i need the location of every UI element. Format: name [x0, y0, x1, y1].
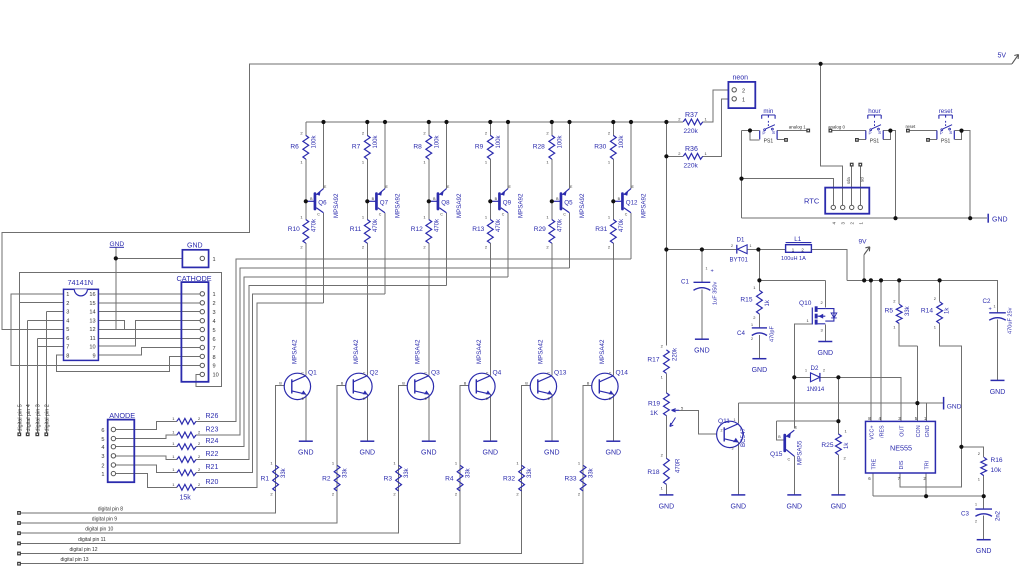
symbol detail [815, 306, 818, 324]
symbol detail [111, 445, 115, 449]
junction [629, 120, 633, 124]
svg-text:R17: R17 [647, 357, 659, 364]
wire to lower transistor collector [551, 243, 553, 376]
wire HV vertical [665, 122, 667, 346]
wire min S to analog 1 [777, 130, 807, 132]
symbol detail [415, 376, 429, 382]
svg-text:470pF: 470pF [770, 326, 776, 342]
junction [550, 120, 554, 124]
svg-text:470uF 25v: 470uF 25v [1008, 307, 1014, 334]
resistor R28 100k [549, 135, 555, 159]
terminal pin square [806, 129, 810, 133]
wire TRE/TRI junction row [873, 495, 984, 497]
symbol detail [200, 310, 204, 314]
svg-text:BC547: BC547 [740, 428, 747, 447]
svg-text:R20: R20 [206, 479, 219, 486]
resistor R23 15k [177, 432, 196, 438]
svg-text:Q8: Q8 [441, 200, 450, 207]
svg-text:GND: GND [831, 503, 847, 510]
wire to lower transistor collector [428, 243, 430, 376]
resistor R15 1k [757, 290, 763, 314]
svg-text:P: P [940, 130, 943, 135]
svg-text:1N914: 1N914 [807, 387, 825, 393]
wire [997, 320, 999, 381]
ground under Q2 [360, 440, 374, 442]
wire hour S down to gnd rail [883, 131, 895, 219]
svg-text:GND: GND [992, 217, 1008, 224]
wire base [583, 386, 592, 466]
junction [383, 120, 387, 124]
wire Q15 base row [777, 420, 839, 422]
svg-text:C: C [379, 213, 382, 217]
junction [700, 247, 704, 251]
ground under C4 [752, 358, 766, 360]
wire 74141 pin13 jog [98, 320, 124, 329]
svg-text:/RES: /RES [880, 425, 886, 438]
wire digital pin 11 [19, 491, 460, 543]
wire emitter to bus [384, 122, 386, 189]
svg-text:C: C [563, 213, 566, 217]
junction [879, 278, 883, 282]
svg-text:R9: R9 [475, 144, 484, 151]
junction [792, 375, 796, 379]
wire TRE [872, 473, 874, 496]
junction [862, 278, 866, 282]
wire base [276, 386, 285, 466]
svg-text:R30: R30 [594, 144, 606, 151]
symbol detail [498, 192, 501, 210]
symbol detail [562, 208, 569, 213]
svg-text:GND: GND [731, 503, 747, 510]
ground under C2 [991, 379, 1005, 381]
symbol detail [414, 379, 416, 393]
junction [321, 120, 325, 124]
svg-text:R24: R24 [206, 438, 219, 445]
resistor R36 220k [683, 153, 703, 159]
svg-text:OUT: OUT [899, 425, 905, 437]
svg-text:Q4: Q4 [493, 370, 502, 377]
svg-text:GND: GND [110, 241, 125, 248]
wire [665, 373, 667, 393]
transistor Q4 MPSA42 [469, 373, 495, 399]
supply 5V arrow [1012, 55, 1019, 64]
svg-text:P: P [869, 130, 872, 135]
resistor R11 470k [364, 220, 370, 244]
junction [365, 199, 369, 203]
wire emitter [612, 394, 614, 441]
svg-text:100k: 100k [619, 134, 625, 148]
symbol detail [475, 379, 477, 393]
svg-text:1: 1 [706, 267, 708, 271]
junction [924, 494, 928, 498]
symbol detail [353, 391, 367, 394]
symbol detail [437, 192, 440, 210]
wire reset S1 tie [954, 131, 961, 140]
svg-text:Q14: Q14 [616, 370, 629, 377]
svg-text:Q13: Q13 [554, 370, 567, 377]
wire D2 row [794, 376, 838, 378]
svg-text:Q12: Q12 [626, 200, 638, 207]
junction [968, 216, 972, 220]
svg-text:5: 5 [213, 328, 216, 334]
svg-text:R6: R6 [290, 144, 299, 151]
terminal pin square [858, 163, 862, 167]
transistor Q7 MPSA92 [367, 200, 375, 202]
resistor R31 470k [610, 220, 616, 244]
svg-text:digital pin 4: digital pin 4 [26, 404, 32, 431]
wire base [337, 386, 346, 466]
resistor R18 470R [664, 458, 670, 484]
wire [366, 159, 368, 219]
wire col6 [612, 122, 614, 135]
wire [305, 159, 307, 219]
svg-text:reset: reset [939, 108, 953, 115]
transistor Q14 MPSA42 [592, 373, 618, 399]
junction [959, 445, 963, 449]
symbol detail [111, 463, 115, 467]
svg-text:1k: 1k [765, 299, 771, 306]
svg-text:BYT01: BYT01 [730, 258, 749, 264]
wire Q15 collector [793, 456, 795, 495]
svg-text:C2: C2 [983, 298, 991, 305]
wire 74141 pin1 to CATHODE pin9 [11, 294, 201, 366]
svg-text:2: 2 [823, 369, 825, 373]
wire collector output [507, 213, 509, 277]
svg-text:MPSA92: MPSA92 [394, 193, 401, 218]
symbol detail [363, 390, 368, 394]
symbol detail [732, 97, 736, 101]
wire collector output [384, 213, 386, 294]
terminal pin square [17, 521, 21, 525]
symbol detail [476, 391, 490, 394]
diode D1 BYT01 [736, 245, 738, 254]
svg-text:C: C [502, 213, 505, 217]
terminal pin square [17, 562, 21, 566]
wire emitter [489, 394, 491, 441]
svg-text:1uF 350v: 1uF 350v [713, 281, 719, 305]
svg-text:D2: D2 [811, 365, 819, 372]
svg-text:220k: 220k [684, 128, 699, 135]
svg-text:C: C [363, 372, 366, 376]
svg-text:R32: R32 [503, 476, 515, 483]
svg-text:R12: R12 [411, 226, 423, 233]
wire D2 to 555 OUT [838, 377, 900, 421]
svg-text:2: 2 [66, 301, 69, 307]
symbol detail [200, 327, 204, 331]
svg-text:R10: R10 [288, 226, 300, 233]
svg-text:S: S [878, 130, 881, 135]
junction [959, 129, 963, 133]
svg-text:C1: C1 [681, 279, 689, 286]
wire [898, 280, 900, 304]
wire col5 [551, 122, 553, 135]
wire HV top bus [306, 121, 667, 123]
svg-text:3: 3 [66, 310, 69, 316]
wire emitter to bus [446, 122, 448, 189]
symbol detail [819, 373, 821, 382]
symbol detail [723, 427, 725, 441]
svg-text:33k: 33k [466, 467, 472, 478]
wire R14 to DIS [900, 324, 961, 487]
svg-text:GND: GND [976, 548, 992, 555]
svg-text:15k: 15k [180, 495, 192, 502]
symbol detail [762, 115, 775, 119]
svg-text:NE555: NE555 [890, 444, 912, 453]
wire base [399, 386, 408, 466]
resistor R9 100k [487, 135, 493, 159]
wire digital pin 13 [19, 491, 583, 564]
svg-text:R16: R16 [991, 457, 1003, 464]
svg-text:GND: GND [990, 389, 1006, 396]
svg-text:2: 2 [721, 429, 723, 433]
resistor R13 470k [487, 220, 493, 244]
wire 74141 pin2 to CATHODE pin10 [19, 272, 221, 386]
symbol detail [375, 192, 378, 210]
switch S1 min PS1 [760, 131, 777, 140]
svg-text:digital pin 13: digital pin 13 [61, 557, 89, 563]
wire 74141 pin15 to CATHODE 2 [98, 302, 200, 304]
symbol detail [766, 125, 775, 129]
svg-text:2: 2 [742, 88, 745, 94]
wire [666, 121, 683, 123]
ground under Q10 [818, 341, 832, 343]
ground rail symbol [987, 214, 989, 223]
svg-text:Q3: Q3 [431, 370, 440, 377]
svg-text:digital pin 2: digital pin 2 [45, 404, 51, 431]
symbol detail [989, 318, 1006, 321]
wire to lower transistor collector [489, 243, 491, 376]
wire ANODE 6 to R26 [113, 421, 176, 429]
svg-text:R14: R14 [921, 308, 933, 315]
symbol detail [624, 189, 631, 195]
terminal pin square [784, 138, 788, 142]
wire to R16 [961, 447, 983, 457]
wire R19 wiper to Q11 base [679, 410, 716, 434]
svg-text:R31: R31 [595, 226, 607, 233]
svg-text:5V: 5V [998, 53, 1007, 60]
svg-text:R4: R4 [445, 476, 454, 483]
svg-text:Q1: Q1 [308, 370, 317, 377]
svg-text:R18: R18 [647, 469, 659, 476]
junction [506, 120, 510, 124]
svg-text:digital pin 8: digital pin 8 [98, 506, 124, 512]
wire Q11 emitter [737, 442, 739, 495]
svg-text:100k: 100k [373, 134, 379, 148]
svg-text:10: 10 [89, 345, 95, 351]
wire [521, 465, 523, 491]
svg-text:MPSA92: MPSA92 [640, 193, 647, 218]
svg-text:R26: R26 [206, 413, 219, 420]
wire /RES riser [880, 280, 882, 421]
connector neon [728, 82, 755, 108]
junction [567, 120, 571, 124]
symbol detail [599, 391, 613, 394]
wire emitter to bus [630, 122, 632, 189]
svg-text:analog 0: analog 0 [828, 124, 845, 129]
junction [893, 216, 897, 220]
ground under Q3 [422, 440, 436, 442]
svg-text:2: 2 [975, 520, 977, 524]
resistor R25 1k [836, 434, 842, 455]
svg-text:1: 1 [975, 503, 977, 507]
wire L1 to 9V rail [811, 250, 847, 281]
svg-text:scl: scl [860, 177, 865, 182]
svg-text:12: 12 [89, 327, 95, 333]
svg-text:Q5: Q5 [564, 200, 573, 207]
connector GND [182, 250, 208, 268]
symbol detail [537, 379, 539, 393]
svg-text:Q2: Q2 [370, 370, 379, 377]
wire emitter [366, 394, 368, 441]
wire ANODE 4 to R24 [113, 446, 176, 448]
symbol detail [439, 208, 446, 213]
junction [897, 278, 901, 282]
svg-text:R23: R23 [206, 427, 219, 434]
resistor R1 33k [273, 465, 279, 491]
symbol detail [694, 288, 711, 291]
wire digital pin 2 stub to 74141 pin3 [46, 312, 63, 434]
capacitor C2 470uF 25v [989, 312, 1006, 314]
symbol detail [538, 376, 552, 382]
wire col4 [489, 122, 491, 135]
transistor Q6 MPSA92 [306, 200, 314, 202]
junction [836, 375, 840, 379]
svg-text:10: 10 [213, 373, 219, 379]
svg-text:TRE: TRE [872, 458, 878, 469]
svg-text:R15: R15 [740, 297, 752, 304]
symbol detail [415, 391, 429, 394]
symbol detail [316, 208, 323, 213]
svg-text:1k: 1k [844, 442, 850, 449]
symbol detail [200, 301, 204, 305]
wire anode bus [196, 277, 508, 447]
svg-text:2: 2 [213, 301, 216, 307]
svg-text:10k: 10k [991, 467, 1002, 474]
svg-text:7: 7 [66, 345, 69, 351]
junction [427, 120, 431, 124]
symbol detail [874, 120, 876, 126]
ground under Q4 [483, 440, 497, 442]
resistor R24 15k [177, 444, 196, 450]
svg-text:2n2: 2n2 [996, 510, 1002, 521]
wire [459, 465, 461, 491]
svg-text:R25: R25 [821, 442, 833, 449]
svg-text:C3: C3 [961, 511, 969, 518]
svg-text:C4: C4 [737, 330, 745, 337]
inductor L1 100uH [786, 245, 812, 253]
symbol detail [562, 189, 569, 195]
svg-text:sda: sda [846, 177, 851, 184]
symbol detail [200, 363, 204, 367]
symbol detail [772, 128, 774, 130]
symbol detail [486, 390, 491, 394]
svg-text:MPSA42: MPSA42 [353, 339, 360, 364]
wire ANODE 1 to R20 [113, 474, 176, 488]
svg-text:digital pin 10: digital pin 10 [85, 527, 113, 533]
symbol detail [378, 191, 382, 196]
svg-text:R13: R13 [472, 226, 484, 233]
svg-text:R36: R36 [685, 146, 698, 153]
resistor R6 100k [303, 135, 309, 159]
svg-text:6: 6 [66, 336, 69, 342]
svg-text:MPSA55: MPSA55 [797, 440, 804, 465]
symbol detail [200, 292, 204, 296]
junction [915, 401, 919, 405]
svg-text:R8: R8 [413, 144, 422, 151]
svg-text:220k: 220k [684, 162, 699, 169]
symbol detail [878, 128, 880, 130]
svg-text:R3: R3 [384, 476, 393, 483]
svg-text:9V: 9V [859, 239, 868, 246]
wire GND pin riser [926, 403, 928, 421]
svg-text:9: 9 [213, 364, 216, 370]
wire min to gnd rail [741, 131, 743, 219]
svg-text:VCC+: VCC+ [870, 425, 876, 440]
wire col3 [428, 122, 430, 135]
GND label underline [110, 246, 125, 248]
symbol detail [941, 129, 943, 131]
resistor R3 33k [396, 465, 402, 491]
svg-text:R29: R29 [534, 226, 546, 233]
IC U1 74141N body [64, 289, 99, 360]
symbol detail [200, 319, 204, 323]
wire to min P [742, 130, 760, 132]
wire RTC pin4 scl stub [859, 166, 861, 205]
symbol detail [764, 129, 766, 131]
wire [665, 416, 667, 459]
terminal pin square [17, 552, 21, 556]
resistor R29 470k [549, 220, 555, 244]
capacitor C4 470pF [752, 327, 767, 329]
symbol detail [609, 390, 614, 394]
symbol detail [872, 125, 881, 129]
transistor Q11 BC547 [717, 421, 743, 447]
terminal pin square [17, 511, 21, 515]
junction [365, 120, 369, 124]
wire [983, 496, 985, 509]
svg-text:16: 16 [89, 292, 95, 298]
svg-text:1k: 1k [945, 307, 951, 314]
svg-text:6: 6 [213, 337, 216, 343]
wire Q11 collector net [738, 402, 943, 404]
svg-text:D1: D1 [737, 237, 745, 244]
junction [664, 247, 668, 251]
svg-text:R37: R37 [685, 112, 698, 119]
symbol detail [850, 205, 854, 209]
terminal pin square [926, 138, 930, 142]
wire [983, 516, 985, 540]
svg-text:Q15: Q15 [770, 451, 783, 458]
resistor R5 33k [896, 304, 902, 323]
resistor R2 33k [334, 465, 340, 491]
svg-text:R19: R19 [648, 401, 660, 408]
svg-text:P: P [762, 130, 765, 135]
symbol detail [353, 376, 367, 382]
symbol detail [945, 120, 947, 126]
symbol detail [752, 333, 767, 336]
wire to CATHODE 5 [98, 328, 200, 330]
wire col2 [366, 122, 368, 135]
svg-text:MPSA92: MPSA92 [517, 193, 524, 218]
svg-text:1: 1 [750, 244, 752, 248]
symbol detail [818, 309, 826, 324]
symbol detail [476, 376, 490, 382]
wire [582, 465, 584, 491]
svg-text:470k: 470k [434, 218, 440, 232]
svg-text:1: 1 [66, 292, 69, 298]
wire emitter to bus [323, 122, 325, 189]
svg-text:C: C [301, 372, 304, 376]
